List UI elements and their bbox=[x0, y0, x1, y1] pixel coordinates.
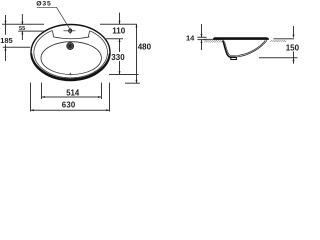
dim 630 bbox=[31, 109, 110, 111]
svg-text:14: 14 bbox=[186, 33, 195, 42]
inner rim edge bbox=[34, 30, 108, 77]
svg-text:110: 110 bbox=[112, 27, 125, 36]
dim 514 bbox=[42, 96, 102, 98]
dim 150 extension bottom bbox=[259, 57, 298, 59]
svg-text:150: 150 bbox=[286, 44, 300, 53]
countertop right (hatched) bbox=[271, 40, 287, 42]
basin inner oval bbox=[41, 42, 101, 75]
svg-text:630: 630 bbox=[62, 101, 76, 110]
basin rim bar (section) bbox=[213, 37, 269, 40]
deck front arc bbox=[54, 37, 90, 39]
svg-text:514: 514 bbox=[66, 89, 80, 98]
svg-text:480: 480 bbox=[138, 43, 152, 52]
outer oval rim bbox=[31, 25, 110, 81]
dim 110 bbox=[119, 13, 121, 52]
bowl left wall + bottom (thick section line) bbox=[223, 40, 237, 57]
bowl profile inner line bbox=[238, 40, 265, 55]
dim 150 bbox=[293, 26, 295, 64]
faucet hole crosshair bbox=[64, 30, 76, 32]
extension line oval bottom (right) bbox=[125, 82, 140, 84]
extension line top edge (left segment) bbox=[2, 23, 44, 25]
svg-text:185: 185 bbox=[0, 36, 13, 45]
extension line basin bottom (right) bbox=[109, 74, 139, 76]
bowl inner wall line bbox=[225, 41, 239, 55]
deck divider right bbox=[88, 31, 89, 37]
extension line faucet axis (left) bbox=[18, 30, 44, 32]
outer oval lower shadow arc bbox=[31, 54, 110, 80]
dim 14 bbox=[201, 24, 203, 50]
svg-text:55: 55 bbox=[19, 26, 25, 32]
drain bbox=[66, 42, 74, 50]
svg-text:330: 330 bbox=[111, 53, 125, 62]
deck divider left bbox=[53, 31, 54, 37]
dim 330 bbox=[119, 61, 121, 75]
svg-text:Ø35: Ø35 bbox=[36, 1, 51, 8]
dim 185 bbox=[5, 15, 7, 61]
extension line drain axis (left) bbox=[3, 46, 31, 48]
dim 480 bbox=[136, 24, 138, 83]
extension line top edge (right segment) bbox=[100, 23, 137, 25]
bowl profile outer line bbox=[237, 40, 267, 57]
overflow tick bbox=[69, 73, 71, 75]
630 extension lines bbox=[30, 83, 32, 112]
countertop left (hatched) bbox=[204, 40, 223, 43]
514 extension lines bbox=[41, 83, 43, 99]
dim 55 bbox=[21, 14, 23, 40]
faucet hole bbox=[69, 29, 72, 32]
extension line basin top (right) bbox=[104, 38, 123, 40]
dim 14 ticks bbox=[197, 36, 206, 38]
drain boss bbox=[231, 57, 237, 59]
